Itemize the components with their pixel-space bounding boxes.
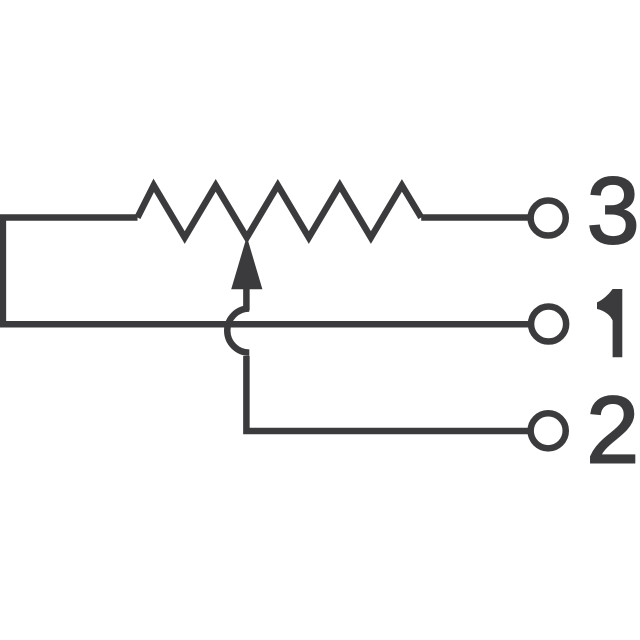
wire: top-left horizontal from left edge to resistor — [0, 214, 138, 221]
svg-text:3: 3 — [587, 158, 640, 264]
terminal circle pin 2 — [531, 413, 566, 448]
wire: left vertical connector — [0, 218, 6, 325]
wiper arrow head — [231, 237, 262, 290]
wire: wiper stub below arrow — [243, 287, 250, 310]
wire: row 1 horizontal from left edge to terminal 1 — [0, 321, 531, 328]
terminal circle pin 3 — [531, 200, 566, 235]
wire: wiper down to row 2 and right to terminal 2 — [246, 356, 531, 431]
resistor R1 (zigzag element) — [138, 185, 422, 237]
svg-text:2: 2 — [586, 378, 639, 484]
pin label 1 (hand-drawn, no foot serif) — [597, 289, 622, 357]
wire hop: wiper jumps over row-1 wire — [227, 309, 249, 353]
wire: resistor to terminal 3 — [421, 214, 532, 221]
terminal circle pin 1 — [531, 306, 566, 341]
